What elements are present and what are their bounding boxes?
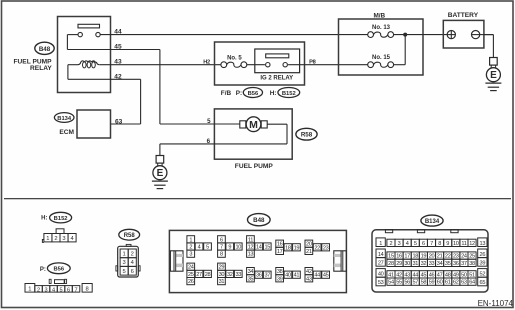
svg-text:60: 60 (437, 280, 443, 286)
svg-text:IG 2 RELAY: IG 2 RELAY (260, 76, 293, 82)
svg-text:29: 29 (396, 261, 402, 267)
svg-text:38: 38 (277, 269, 283, 275)
svg-text:2: 2 (189, 245, 192, 251)
svg-text:BATTERY: BATTERY (448, 12, 479, 19)
svg-text:4: 4 (198, 245, 201, 251)
svg-text:30: 30 (404, 261, 410, 267)
svg-text:B48: B48 (39, 46, 51, 53)
svg-text:1: 1 (379, 241, 382, 247)
svg-text:1: 1 (46, 236, 49, 242)
svg-text:7: 7 (74, 287, 77, 293)
svg-text:No. 5: No. 5 (227, 55, 242, 61)
svg-text:44: 44 (314, 273, 320, 279)
svg-text:59: 59 (429, 280, 435, 286)
svg-text:M/B: M/B (373, 13, 385, 20)
svg-text:H:: H: (270, 90, 277, 97)
svg-text:6: 6 (131, 269, 134, 275)
svg-text:12: 12 (248, 245, 254, 251)
svg-text:3: 3 (398, 241, 401, 247)
svg-text:22: 22 (314, 245, 320, 251)
svg-text:8: 8 (85, 287, 88, 293)
svg-text:39: 39 (480, 261, 486, 267)
svg-text:27: 27 (378, 261, 384, 267)
svg-text:43: 43 (114, 59, 122, 66)
svg-text:28: 28 (205, 272, 211, 278)
svg-text:53: 53 (378, 280, 384, 286)
svg-text:63: 63 (115, 118, 123, 125)
svg-text:55: 55 (396, 280, 402, 286)
svg-text:19: 19 (294, 245, 300, 251)
svg-text:37: 37 (264, 273, 270, 279)
svg-text:3: 3 (123, 260, 126, 266)
svg-text:6: 6 (422, 241, 425, 247)
svg-text:3: 3 (44, 287, 47, 293)
svg-text:45: 45 (323, 273, 329, 279)
svg-text:37: 37 (461, 261, 467, 267)
svg-text:25: 25 (188, 272, 194, 278)
svg-text:16: 16 (277, 242, 283, 248)
svg-text:42: 42 (114, 73, 122, 80)
svg-text:13: 13 (248, 252, 254, 258)
svg-text:58: 58 (421, 280, 427, 286)
svg-text:B134: B134 (425, 219, 440, 225)
svg-text:28: 28 (388, 261, 394, 267)
svg-text:21: 21 (306, 249, 312, 255)
svg-text:5: 5 (123, 269, 126, 275)
svg-text:36: 36 (256, 273, 262, 279)
svg-text:9: 9 (228, 245, 231, 251)
svg-text:54: 54 (388, 280, 394, 286)
svg-text:8: 8 (220, 252, 223, 258)
svg-text:No. 15: No. 15 (372, 55, 391, 61)
svg-text:17: 17 (277, 249, 283, 255)
svg-text:B56: B56 (248, 91, 259, 97)
svg-text:4: 4 (406, 241, 409, 247)
svg-text:B48: B48 (253, 217, 265, 224)
svg-text:2: 2 (54, 236, 57, 242)
svg-text:1: 1 (28, 287, 31, 293)
svg-text:R58: R58 (301, 132, 313, 139)
svg-text:2: 2 (37, 287, 40, 293)
svg-text:35: 35 (248, 276, 254, 282)
svg-text:E: E (490, 70, 497, 81)
svg-text:33: 33 (235, 272, 241, 278)
svg-text:2: 2 (131, 252, 134, 258)
svg-text:FUEL PUMP: FUEL PUMP (235, 163, 274, 170)
svg-text:9: 9 (446, 241, 449, 247)
svg-text:H2: H2 (203, 59, 210, 65)
svg-text:7: 7 (430, 241, 433, 247)
svg-text:EN-11074: EN-11074 (478, 299, 514, 308)
svg-text:31: 31 (219, 279, 225, 285)
svg-text:10: 10 (453, 241, 459, 247)
svg-text:1: 1 (123, 252, 126, 258)
svg-text:8: 8 (438, 241, 441, 247)
svg-text:31: 31 (412, 261, 418, 267)
svg-text:RELAY: RELAY (30, 65, 52, 72)
svg-text:42: 42 (306, 269, 312, 275)
svg-text:20: 20 (306, 242, 312, 248)
svg-text:11: 11 (461, 241, 466, 247)
svg-text:64: 64 (469, 280, 475, 286)
svg-text:10: 10 (235, 245, 241, 251)
svg-text:3: 3 (189, 252, 192, 258)
svg-text:32: 32 (421, 261, 427, 267)
svg-text:4: 4 (52, 287, 55, 293)
svg-text:13: 13 (480, 241, 486, 247)
svg-text:63: 63 (461, 280, 467, 286)
svg-text:62: 62 (453, 280, 459, 286)
svg-text:F/B: F/B (221, 90, 232, 97)
svg-text:P8: P8 (309, 59, 315, 65)
svg-text:No. 13: No. 13 (372, 25, 391, 31)
svg-text:5: 5 (207, 118, 211, 125)
svg-text:57: 57 (412, 280, 418, 286)
svg-text:12: 12 (469, 241, 475, 247)
svg-text:B152: B152 (54, 216, 68, 222)
svg-text:56: 56 (404, 280, 410, 286)
svg-text:32: 32 (227, 272, 233, 278)
svg-text:18: 18 (285, 245, 291, 251)
svg-text:14: 14 (256, 245, 262, 251)
svg-text:26: 26 (188, 279, 194, 285)
svg-text:39: 39 (277, 276, 283, 282)
svg-text:33: 33 (429, 261, 435, 267)
svg-text:41: 41 (294, 273, 300, 279)
svg-text:E: E (157, 168, 164, 179)
svg-text:44: 44 (114, 29, 122, 36)
svg-text:65: 65 (480, 280, 486, 286)
svg-text:7: 7 (220, 245, 223, 251)
svg-text:B152: B152 (282, 91, 296, 97)
svg-text:6: 6 (207, 138, 211, 145)
svg-text:35: 35 (445, 261, 451, 267)
svg-text:3: 3 (62, 236, 65, 242)
svg-text:B134: B134 (57, 116, 72, 122)
svg-text:27: 27 (196, 272, 202, 278)
svg-text:38: 38 (469, 261, 475, 267)
svg-text:P:: P: (236, 90, 242, 97)
svg-text:2: 2 (390, 241, 393, 247)
svg-text:34: 34 (437, 261, 443, 267)
svg-text:M: M (249, 119, 258, 131)
svg-text:P:: P: (40, 267, 46, 273)
svg-text:H:: H: (41, 216, 47, 222)
svg-text:30: 30 (219, 272, 225, 278)
svg-text:45: 45 (114, 44, 122, 51)
svg-text:B56: B56 (53, 267, 64, 273)
svg-text:40: 40 (285, 273, 291, 279)
svg-text:ECM: ECM (59, 129, 74, 136)
svg-text:23: 23 (323, 245, 329, 251)
svg-text:R58: R58 (124, 233, 136, 239)
svg-text:61: 61 (445, 280, 451, 286)
svg-text:5: 5 (206, 245, 209, 251)
svg-text:34: 34 (248, 269, 254, 275)
svg-text:36: 36 (453, 261, 459, 267)
svg-text:5: 5 (414, 241, 417, 247)
svg-text:15: 15 (264, 245, 270, 251)
svg-text:5: 5 (59, 287, 62, 293)
svg-text:43: 43 (306, 276, 312, 282)
svg-text:6: 6 (67, 287, 70, 293)
